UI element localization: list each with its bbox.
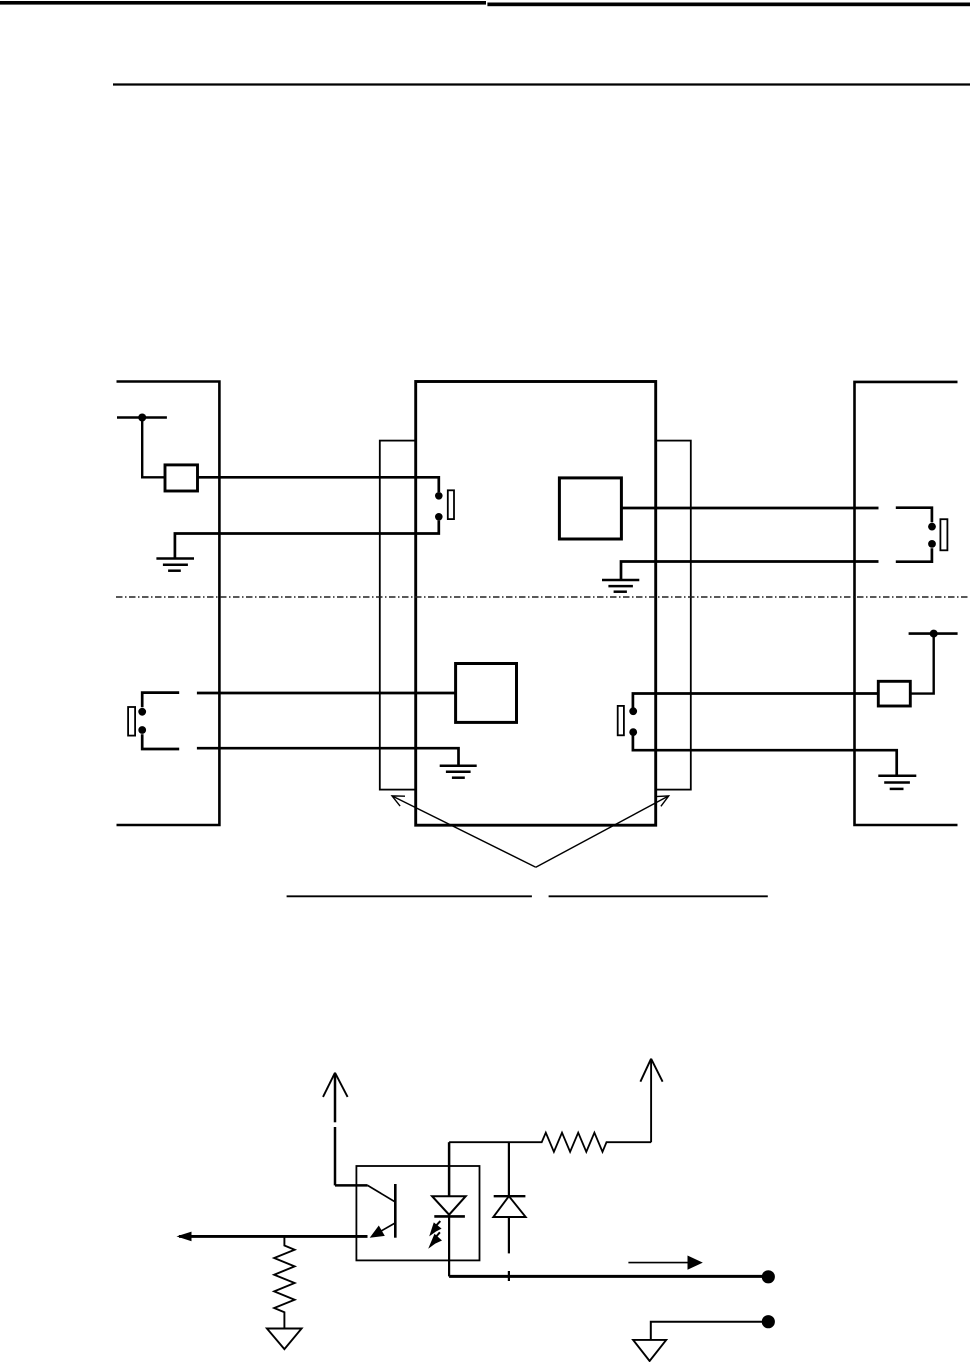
terminal dot (return) bbox=[762, 1315, 775, 1328]
+V arrow (left, collector supply) bbox=[323, 1073, 348, 1097]
wire +V to phototransistor collector (with break) bbox=[335, 1074, 368, 1185]
receiver input dot B1 bbox=[928, 523, 936, 531]
right connector of center unit bbox=[656, 441, 691, 790]
caption underline left bbox=[287, 895, 532, 897]
bias resistor R2 (horizontal zigzag) bbox=[449, 1133, 651, 1152]
caption underline right bbox=[549, 895, 768, 897]
signal wire C (center driver to left unit) bbox=[197, 692, 456, 695]
ground (center unit, lower) bbox=[440, 766, 477, 778]
annotation arrow to left connector bbox=[392, 796, 536, 867]
LED D1 (inside optocoupler) bbox=[432, 1142, 466, 1276]
pull-down resistor R1 (zigzag) bbox=[274, 1236, 294, 1328]
ground triangle (right) bbox=[633, 1340, 666, 1361]
receiver stub B bbox=[896, 508, 932, 523]
direction arrow bbox=[628, 1256, 702, 1270]
return wire D with ground riser bbox=[633, 732, 897, 776]
left connector of center unit bbox=[380, 441, 416, 790]
ground triangle (left) bbox=[267, 1329, 302, 1350]
terminal dot (signal) bbox=[762, 1270, 775, 1283]
receiver input dot B2 bbox=[928, 540, 936, 548]
center unit box bbox=[416, 382, 656, 826]
power stub wire (left unit) bbox=[117, 416, 167, 419]
return wire A bbox=[175, 521, 439, 559]
resistor RA (pull-up, left unit) bbox=[165, 465, 198, 491]
+V arrow (right, LED supply) bbox=[640, 1059, 662, 1143]
receiver input dot C1 bbox=[138, 708, 146, 716]
return stub B bbox=[896, 548, 932, 562]
top header bar right segment bbox=[487, 3, 970, 7]
ground (right unit) bbox=[878, 776, 916, 789]
junction dot (left power) bbox=[138, 414, 146, 422]
output wire with left arrowhead (RD signal) bbox=[177, 1232, 368, 1242]
junction dot (right power) bbox=[930, 630, 938, 638]
light emission arrows bbox=[428, 1221, 442, 1249]
top header bar left segment bbox=[0, 1, 486, 5]
top horizontal rule bbox=[113, 83, 970, 85]
boundary dash-dot line bbox=[116, 596, 968, 598]
receiver terminator D bbox=[618, 706, 624, 735]
left unit box bbox=[117, 382, 220, 826]
receiver input dot D2 bbox=[629, 728, 637, 736]
return wire C with ground riser bbox=[197, 748, 459, 766]
receiver terminator B bbox=[940, 519, 947, 550]
signal wire D (right unit to center receiver) bbox=[633, 694, 878, 712]
power stub wire (right unit) bbox=[909, 632, 958, 635]
0V return line bbox=[651, 1322, 764, 1340]
signal wire B (center driver to right unit) bbox=[621, 507, 878, 510]
resistor RB (pull-up, right unit) bbox=[878, 681, 910, 706]
optocoupler box PC1 bbox=[356, 1166, 479, 1260]
wire from junction to resistor RA bbox=[142, 418, 165, 478]
return wire B with ground riser bbox=[621, 562, 879, 581]
annotation arrow to right connector bbox=[536, 796, 669, 867]
driver box (center unit, lower) bbox=[456, 664, 517, 723]
receiver terminator C bbox=[128, 707, 135, 736]
protection diode D2 bbox=[493, 1142, 525, 1281]
right unit box bbox=[855, 382, 958, 825]
signal wire A (left unit to center receiver) bbox=[198, 477, 439, 492]
ground (left unit) bbox=[156, 559, 194, 571]
receiver stub C bbox=[142, 693, 179, 708]
receiver input dot D1 bbox=[629, 707, 637, 715]
receiver input dot A1 bbox=[435, 492, 443, 500]
driver box (center unit, upper) bbox=[559, 478, 621, 539]
ground (center unit, upper) bbox=[602, 580, 639, 592]
receiver input dot A2 bbox=[435, 513, 443, 521]
wire resistor RB to power junction bbox=[910, 634, 933, 694]
phototransistor Q1 bbox=[368, 1184, 396, 1238]
receiver terminator A bbox=[448, 490, 454, 519]
receiver input dot C2 bbox=[138, 726, 146, 734]
return stub C bbox=[142, 734, 179, 749]
output signal line (to terminal) bbox=[449, 1275, 764, 1278]
